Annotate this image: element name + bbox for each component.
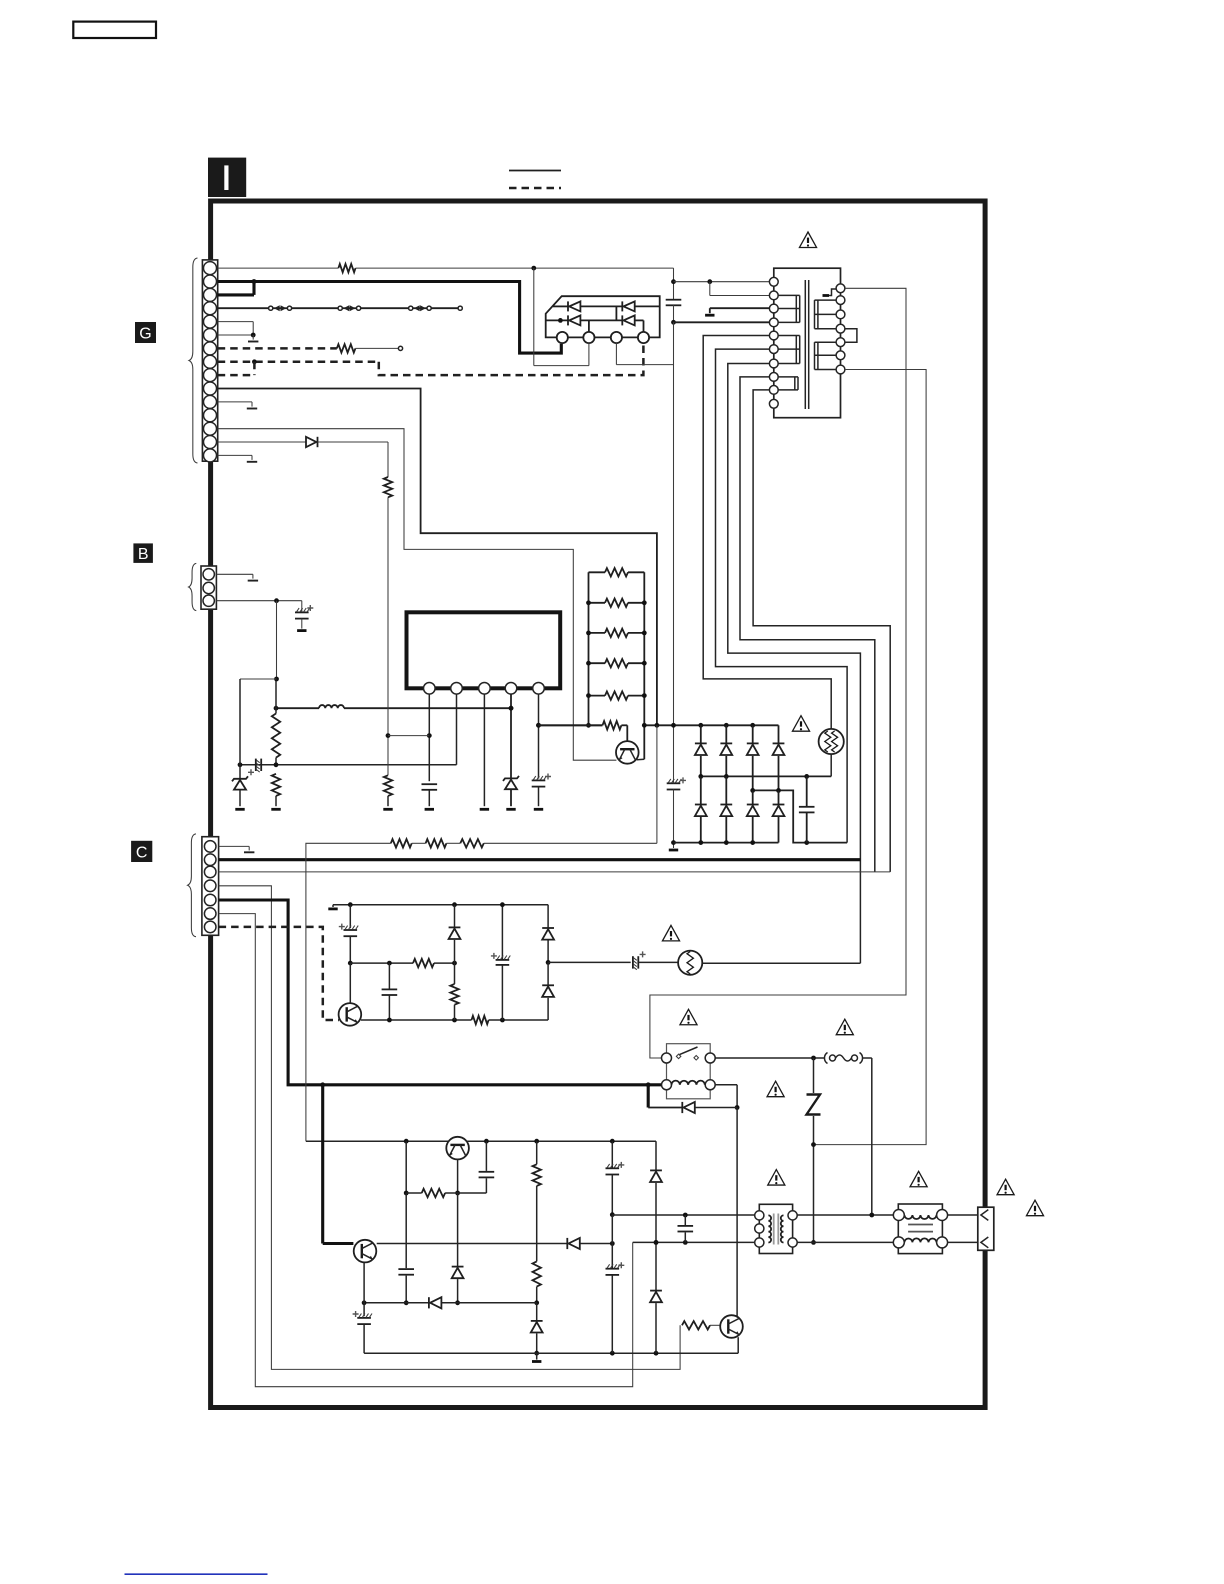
mid rail with resistor R917	[350, 959, 457, 967]
wire Q4 emitter	[737, 1337, 739, 1353]
line filter transformer T902	[755, 1204, 798, 1253]
wire Q3 base thick	[323, 1085, 354, 1244]
wire pin1L feed	[674, 279, 770, 284]
ground rail with chassis mark	[328, 902, 548, 909]
AC mid lower	[797, 1241, 893, 1243]
warning triangle (transformer)	[799, 232, 816, 247]
diode D921	[531, 1303, 543, 1362]
connector G body	[202, 260, 217, 462]
wire IC pin5 to ladder	[539, 724, 603, 726]
connector C body	[202, 837, 219, 936]
diode D908	[747, 725, 759, 790]
wire G14 with diode D901 to resistor	[218, 437, 388, 477]
title box (top left)	[73, 22, 156, 38]
diode D912	[747, 790, 759, 842]
connector B brace	[189, 563, 197, 610]
transformer pins right	[836, 284, 845, 374]
zener diode D915	[232, 765, 248, 810]
resistor R911 column	[383, 497, 392, 809]
transistor Q5	[339, 963, 362, 1026]
diode D917	[542, 905, 554, 965]
capacitor C901	[666, 279, 682, 324]
wire G5	[218, 322, 254, 335]
bottom rail with resistor R918	[361, 1016, 548, 1024]
svg-text:C: C	[136, 844, 148, 861]
gray feedback wire with R914 R915 R916	[306, 725, 657, 1141]
AC line lower	[633, 1240, 755, 1245]
bus from switch to diode matrix	[644, 723, 778, 744]
transformer tap detail pin1R	[823, 289, 837, 296]
resistor R913 to Q4 base	[682, 1321, 722, 1329]
IC pin5 column capacitor C905	[532, 694, 551, 809]
diode D925	[650, 1242, 662, 1353]
diode D904 (bottom left)	[546, 315, 623, 325]
connector C brace	[188, 834, 196, 937]
capacitor C907	[295, 601, 313, 631]
diode D905 (bottom right)	[622, 315, 643, 332]
transformer secondary winding 2	[815, 342, 837, 369]
IC pin2 column	[240, 694, 457, 765]
transformer T901 body	[774, 268, 841, 418]
resistor R903	[589, 568, 645, 576]
wire G3 tie to G2	[218, 282, 254, 295]
resistor R909 chain upper	[272, 679, 280, 767]
wire C6 to AC line	[219, 914, 633, 1387]
diode D907	[720, 725, 732, 776]
capacitor C915 column upper	[606, 1141, 625, 1217]
AC line upper	[612, 1213, 755, 1218]
wire G9 dashed tie	[218, 362, 255, 375]
resistor R905	[586, 629, 647, 637]
wire G2 thick to degauss switch	[218, 279, 562, 353]
connector G brace	[189, 258, 198, 463]
capacitor C913	[398, 1193, 414, 1305]
wire G15 with ground	[218, 455, 258, 461]
bleeder ladder rails	[589, 572, 645, 759]
choke L901	[274, 705, 514, 711]
resistor R904	[586, 599, 647, 607]
IC pin1 column with capacitor C904	[422, 694, 438, 809]
wire C1 ground	[219, 846, 255, 852]
resistor R910 lower to ground	[271, 774, 280, 810]
diode D903 (top right)	[622, 301, 659, 311]
wire G1 net with resistor R901	[218, 264, 674, 282]
mid bus to posistor	[698, 774, 831, 779]
schematic border frame	[211, 201, 986, 1408]
wire C4 long loop to Q4 base resistor	[219, 886, 680, 1370]
wire Q3 collector with diode D923	[377, 1238, 615, 1249]
wire switch pin3 down	[616, 343, 673, 365]
node rail with diode D922	[362, 1297, 537, 1308]
surge absorber Z901	[807, 1058, 821, 1245]
wire pin7L to C2 column	[728, 364, 861, 964]
wire switch pin2 to G1 net	[534, 268, 589, 366]
wire pin7R to surge node	[814, 370, 927, 1145]
wire G10 loop to ground bus	[218, 389, 657, 726]
wire Q2 emitter	[455, 1159, 460, 1195]
capacitor C902 on bus	[667, 725, 686, 842]
transistor Q2	[446, 1137, 469, 1160]
diode D916	[449, 905, 461, 963]
warning triangle (fuse)	[836, 1019, 853, 1034]
lower bus	[674, 840, 779, 845]
wire C2 thick	[219, 858, 861, 861]
warning triangle (T2)	[910, 1171, 927, 1186]
section label I (black tab)	[208, 158, 246, 197]
wire Q4 collector column	[736, 1108, 738, 1317]
transformer secondary winding 1	[815, 300, 837, 329]
capacitor C906	[238, 759, 262, 776]
transistor Q1	[616, 741, 644, 764]
capacitor C917 across AC	[678, 1215, 694, 1242]
label B	[133, 543, 153, 563]
diode D913	[773, 790, 785, 842]
warning triangle (T1)	[768, 1170, 785, 1185]
thick branch with diode D919	[648, 1085, 737, 1113]
IC pin3 column ground	[480, 694, 489, 809]
wire pin1R to relay feed	[650, 288, 906, 1058]
label G	[135, 322, 156, 343]
warning triangle (lamp)	[662, 925, 679, 940]
warning triangle (relay)	[680, 1009, 697, 1024]
warning triangle (posistor)	[792, 716, 809, 731]
diode D909	[773, 743, 785, 790]
wire pin2L feed	[710, 282, 770, 296]
wire lamp to C2 column	[702, 962, 860, 964]
resistor R920	[404, 1141, 458, 1197]
resistor R921 column	[533, 1141, 541, 1261]
capacitor C909	[382, 963, 398, 1020]
wire cap column mid	[611, 1215, 613, 1244]
legend dashed line	[509, 187, 561, 190]
switch inner link	[589, 306, 617, 332]
wire C901 bottom to transformer pin4	[674, 321, 770, 323]
hybrid IC IC901 block	[407, 612, 561, 694]
AC to inlet upper	[948, 1214, 978, 1216]
legend solid line	[509, 170, 561, 172]
capacitor C908 on Q5 collector	[339, 905, 358, 966]
resistor R922	[533, 1261, 541, 1305]
warning triangle (inlet top)	[997, 1179, 1014, 1194]
wire relay contact bottom	[715, 1085, 739, 1110]
svg-text:G: G	[139, 326, 151, 343]
bottom return rail	[364, 1351, 738, 1356]
wire C5 thick to relay coil	[219, 900, 662, 1087]
lamp/posistor TH902	[678, 951, 702, 975]
diode D920	[452, 1193, 464, 1305]
transformer primary winding 1	[779, 295, 800, 322]
capacitor C916 column lower	[606, 1244, 625, 1354]
wire pin9L down	[753, 390, 890, 872]
transistor Q3	[354, 1240, 377, 1263]
transistor Q4	[720, 1315, 743, 1338]
resistor R919	[450, 962, 458, 1020]
common mode choke T903	[893, 1204, 947, 1254]
transformer secondary jumper 4R-5R	[845, 329, 857, 343]
transformer pins left	[769, 277, 778, 408]
IC pin4 column zener D914	[503, 694, 519, 809]
wire pin5L to degauss posistor	[703, 336, 831, 730]
wire Q2 base rail	[306, 1139, 449, 1144]
wire C3	[219, 871, 891, 873]
wire Q2 out rail	[466, 1139, 656, 1144]
wire B3 net	[216, 598, 301, 603]
wire pin3L chassis ground	[705, 308, 770, 315]
resistor R906	[586, 659, 647, 667]
wire B1 ground	[216, 574, 258, 580]
wire pin8L down	[740, 377, 875, 872]
warning triangle (inlet bottom)	[1026, 1200, 1043, 1215]
degauss posistor TH901	[819, 729, 844, 777]
AC inlet connector	[978, 1207, 994, 1250]
wire G4 jumper chain	[218, 305, 463, 311]
AC to inlet lower	[948, 1241, 978, 1243]
wire C901 node down to ground bus	[673, 322, 675, 725]
wire mid to lamp capacitor C911	[548, 951, 678, 969]
relay RY901	[662, 1044, 716, 1099]
diode D918	[542, 962, 554, 1020]
capacitor C903	[799, 776, 815, 842]
svg-text:B: B	[138, 546, 149, 563]
wire C7 dashed to Q5 base	[219, 927, 339, 1020]
wire B3 to L901 node	[240, 601, 279, 765]
degauss switch S901 outline	[546, 296, 660, 337]
ground bus earth	[669, 840, 678, 850]
connector B body	[201, 566, 216, 609]
label C	[131, 841, 152, 862]
wire Q3 emitter with capacitor C914	[353, 1263, 372, 1353]
wire G7 dashed with resistor R902 to open end	[218, 344, 403, 352]
transformer primary winding 2	[779, 336, 800, 364]
diode D911	[720, 776, 732, 842]
wire G6 with ground	[218, 333, 259, 342]
capacitor C912	[458, 1141, 495, 1193]
transformer primary winding 3	[779, 377, 799, 390]
wire R911 to IC pin1	[388, 735, 429, 737]
wire relay to fuse F901	[715, 1053, 872, 1216]
AC mid upper	[797, 1213, 893, 1218]
diode D924 column	[650, 1141, 662, 1245]
diode D910	[695, 776, 707, 842]
resistor R912 (upper)	[384, 477, 392, 497]
diode D902 (top left)	[553, 301, 622, 311]
wire G13 to Q1 emitter	[218, 429, 617, 761]
wire pin6L to rectifier return	[716, 349, 848, 842]
resistor R907	[586, 691, 647, 699]
diode D906	[695, 725, 707, 776]
wire G8 dashed	[218, 344, 644, 375]
switch contact pins	[557, 332, 649, 343]
warning triangle (surge)	[767, 1081, 784, 1096]
resistor R908	[536, 721, 647, 741]
jog bus	[750, 788, 847, 845]
wire G11 with ground	[218, 402, 258, 409]
footer blue line	[125, 1573, 268, 1575]
capacitor C910 middle column	[491, 902, 510, 1020]
